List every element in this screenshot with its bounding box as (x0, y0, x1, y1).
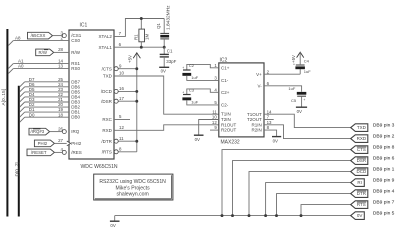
bus D[0..7] (18, 86, 20, 217)
wire T1OUT to TXD tag (264, 114, 351, 127)
wire T2IN to ground (199, 120, 219, 136)
svg-text:+5V: +5V (128, 55, 133, 63)
pin 26 bubble IRQ (62, 130, 66, 134)
svg-text:0V: 0V (161, 69, 166, 74)
svg-text:XTAL1: XTAL1 (98, 45, 112, 50)
svg-text:11: 11 (119, 136, 124, 141)
svg-text:WDC W65C51N: WDC W65C51N (81, 164, 118, 170)
svg-text:1uF: 1uF (288, 86, 295, 91)
wire D7 (25, 81, 69, 83)
svg-text:R/W: R/W (71, 50, 81, 55)
wire pin4 to C3+ (187, 89, 219, 94)
ground 0V at T2IN (194, 134, 204, 136)
svg-text:RXD: RXD (357, 136, 367, 141)
svg-text:/RES: /RES (71, 150, 82, 155)
svg-text:IRQ: IRQ (71, 129, 80, 134)
pin 16 bubble /DCD (114, 89, 118, 93)
junction bus DCD (248, 214, 251, 217)
svg-text:C1-: C1- (221, 78, 229, 83)
svg-text:DCD: DCD (356, 169, 366, 174)
junction /DTR (135, 140, 138, 143)
resistor R1 body (139, 29, 145, 42)
svg-text:/CTS: /CTS (102, 66, 112, 71)
svg-text:shalewyn.com: shalewyn.com (116, 192, 148, 198)
svg-text:1uF: 1uF (304, 69, 311, 74)
tag 0V to DB9 pin 5 (351, 212, 365, 220)
capacitor C1 (160, 53, 169, 55)
svg-text:26: 26 (58, 126, 63, 131)
wire C1 top lead (163, 47, 165, 54)
svg-text:V+: V+ (256, 72, 262, 77)
svg-text:T2IN: T2IN (221, 117, 231, 122)
wire ground bus to CTS tag (222, 150, 351, 216)
wire /IRQ to pin 26 (50, 131, 63, 133)
tag /65CXX chip select (28, 32, 53, 39)
pin 17 bubble /DSR (114, 99, 118, 103)
svg-text:13: 13 (58, 63, 63, 68)
junction /DSR +5V (135, 100, 138, 103)
svg-text:RS232C using WDC 65C51N: RS232C using WDC 65C51N (99, 179, 166, 185)
svg-text:16: 16 (119, 86, 124, 91)
junction bus RI (264, 214, 267, 217)
bus A[0..15] (6, 29, 8, 217)
stub R2OUT pin 9 (210, 129, 219, 131)
wire R1IN to RXD tag (264, 125, 351, 139)
svg-text:DB9 pin 1: DB9 pin 1 (373, 167, 395, 173)
wire C2- to pin 3 (187, 76, 219, 81)
svg-text:D[0..7]: D[0..7] (14, 162, 20, 176)
svg-text:A[0..15]: A[0..15] (1, 89, 7, 106)
wire pin1 to C2+ (187, 64, 219, 69)
pin 27 clock wedge (67, 141, 71, 146)
svg-text:DB0: DB0 (71, 115, 80, 120)
svg-text:V-: V- (258, 83, 263, 88)
svg-text:0V: 0V (195, 137, 200, 142)
wire R1 bottom (140, 42, 142, 47)
tag RXD to DB9 pin 2 (351, 135, 368, 143)
svg-text:12: 12 (119, 125, 124, 130)
svg-text:DB9 pin 7: DB9 pin 7 (373, 200, 395, 206)
svg-text:17: 17 (119, 96, 124, 101)
junction bus CTS (221, 214, 224, 217)
svg-text:RXC: RXC (102, 117, 112, 122)
svg-text:TXD: TXD (103, 74, 113, 79)
svg-text:/DSR: /DSR (101, 99, 113, 104)
svg-text:R2OUT: R2OUT (221, 128, 237, 133)
svg-text:/DTR: /DTR (101, 139, 112, 144)
wire /DTR to +5V rail (118, 140, 137, 142)
svg-text:A0: A0 (18, 63, 24, 68)
wire D3 (25, 101, 69, 103)
tag TXD to DB9 pin 3 (351, 124, 368, 132)
svg-text:TXD: TXD (357, 125, 367, 130)
svg-text:12: 12 (212, 120, 217, 125)
wire D6 (25, 86, 69, 88)
wire /DSR to +5V (118, 100, 137, 102)
wire D4 (25, 96, 69, 98)
wire /CTS to +5V (118, 68, 137, 70)
pin 4 bubble /RES (62, 150, 66, 154)
tag DTR to DB9 pin 4 (351, 190, 368, 198)
svg-text:1uF: 1uF (191, 75, 198, 80)
wire D5 (25, 91, 69, 93)
wire crystal bottom lead (163, 39, 165, 47)
svg-text:D0: D0 (29, 112, 35, 117)
svg-text:C4: C4 (304, 59, 310, 64)
svg-text:10: 10 (212, 115, 217, 120)
junction bus DSR (231, 214, 234, 217)
svg-text:27: 27 (58, 138, 63, 143)
tag R/W (36, 49, 54, 56)
tag RTS to DB9 pin 7 (351, 201, 368, 209)
wire C1 to ground (163, 57, 165, 67)
svg-text:33pF: 33pF (166, 59, 176, 64)
wire RXD to R1OUT (114, 125, 219, 131)
svg-text:R1: R1 (134, 34, 139, 40)
+5V supply arrow at C4 (297, 52, 304, 57)
svg-text:0V: 0V (297, 109, 302, 114)
junction /DCD +5V (135, 90, 138, 93)
wire ground bus to RI tag (266, 183, 351, 216)
svg-text:R2IN: R2IN (252, 128, 262, 133)
wire A8 to CS0 pin 2 (13, 40, 69, 42)
pin 3 bubble /CS1 (62, 34, 66, 38)
wire ground bus to RTS tag (301, 205, 351, 216)
svg-text:+: + (182, 90, 184, 94)
svg-text:C2-: C2- (221, 102, 229, 107)
svg-text:0V: 0V (110, 223, 115, 228)
wire /RESET to pin 4 (54, 151, 62, 153)
svg-text:+: + (303, 98, 305, 102)
tag DCD to DB9 pin 1 (351, 168, 368, 176)
wire TXD to T1IN (114, 76, 219, 114)
svg-text:PHI2: PHI2 (38, 141, 48, 146)
svg-text:DB9 pin 8: DB9 pin 8 (373, 145, 395, 151)
svg-text:10: 10 (119, 71, 124, 76)
tag CTS to DB9 pin 8 (351, 146, 368, 154)
svg-text:Q1: Q1 (156, 23, 161, 29)
svg-text:PHI2: PHI2 (71, 141, 82, 146)
wire A0 to RS0 (13, 68, 69, 70)
junction bus DTR (275, 214, 278, 217)
tag /RESET (27, 149, 54, 156)
svg-text:DTR: DTR (357, 191, 367, 196)
wire /65CXX to pin 3 (53, 35, 63, 37)
junction R1 bottom (140, 46, 143, 49)
pin 11 bubble /DTR (114, 139, 118, 143)
bus entry D5 (20, 92, 25, 97)
svg-text:/DCD: /DCD (101, 89, 113, 94)
svg-text:/RESET: /RESET (31, 150, 47, 155)
ground 0V at R2IN (272, 136, 281, 138)
capacitor C2 (183, 69, 191, 71)
wire R/W to pin 28 (54, 51, 69, 53)
svg-text:T2OUT: T2OUT (247, 117, 262, 122)
capacitor C5 (297, 92, 307, 95)
svg-text:13: 13 (267, 120, 272, 125)
svg-text:C2: C2 (189, 63, 195, 68)
wire D0 (25, 116, 69, 118)
svg-text:0V: 0V (273, 138, 278, 143)
junction crystal/C1 (163, 46, 166, 49)
svg-text:CS0: CS0 (71, 38, 80, 43)
svg-text:/65CXX: /65CXX (31, 33, 46, 38)
svg-text:DB9 pin 9: DB9 pin 9 (373, 178, 395, 184)
svg-text:T1OUT: T1OUT (247, 112, 262, 117)
svg-text:11: 11 (212, 109, 217, 114)
wire R2IN to ground (264, 130, 277, 137)
svg-text:DB9 pin 3: DB9 pin 3 (373, 123, 395, 129)
wire /RTS joins /DTR rail (118, 151, 137, 153)
overline on W of R/W (44, 49, 48, 51)
bus entry D7 (20, 82, 25, 87)
wire R1 top (140, 19, 142, 30)
svg-text:1uF: 1uF (191, 100, 198, 105)
wire V+ to C4 (264, 73, 300, 75)
crystal Q1 (160, 32, 169, 34)
ground 0V under C1 (159, 66, 169, 68)
bus entry A0 (8, 69, 13, 74)
bus entry D0 (20, 117, 25, 122)
wire C3- to pin 5 (187, 100, 219, 105)
svg-text:+: + (182, 66, 184, 70)
svg-text:28: 28 (58, 47, 63, 52)
ground 0V bottom left (114, 216, 116, 222)
stub T2OUT pin 7 (264, 119, 274, 121)
svg-text:IC2: IC2 (220, 58, 228, 64)
ground 0V under C5 (296, 106, 307, 108)
wire ground bus to DTR tag (277, 194, 351, 216)
capacitor C3 (183, 94, 191, 96)
svg-text:+: + (293, 62, 295, 66)
bus entry D4 (20, 97, 25, 102)
op IC1 WDC W65C51N body (69, 30, 114, 159)
svg-text:RTS: RTS (357, 202, 366, 207)
wire ground bus (115, 215, 351, 217)
svg-text:1.8432MHz: 1.8432MHz (166, 5, 172, 30)
svg-text:/IRQ#3: /IRQ#3 (30, 129, 44, 134)
bus entry A8 (8, 41, 13, 46)
svg-text:C1: C1 (167, 49, 173, 54)
stub RXC pin 5 (114, 119, 130, 121)
bus entry D1 (20, 112, 25, 117)
pin 9 bubble /CTS (114, 67, 118, 71)
svg-text:C5: C5 (291, 98, 297, 103)
wire ground bus to DSR tag (233, 161, 351, 216)
junction bus RTS (300, 214, 303, 217)
svg-text:RXD: RXD (102, 128, 112, 133)
pin 8 bubble /RTS (114, 150, 118, 154)
svg-text:C3: C3 (189, 88, 195, 93)
overline on IRQ of /IRQ#3 (33, 128, 41, 130)
wire A1 to RS1 (13, 63, 69, 65)
svg-text:DB9 pin 5: DB9 pin 5 (373, 211, 395, 217)
wire crystal top lead (163, 19, 165, 34)
svg-text:0V: 0V (357, 213, 363, 218)
bus entry D2 (20, 107, 25, 112)
svg-text:RS0: RS0 (71, 66, 80, 71)
wire D1 (25, 111, 69, 113)
wire D2 (25, 106, 69, 108)
svg-text:18: 18 (58, 112, 63, 117)
bus entry D6 (20, 87, 25, 92)
svg-text:IC1: IC1 (80, 22, 88, 28)
bus entry A1 (8, 64, 13, 69)
svg-text:DB9 pin 6: DB9 pin 6 (373, 156, 395, 162)
svg-text:DB9 pin 4: DB9 pin 4 (373, 189, 395, 195)
svg-text:/RTS: /RTS (102, 149, 112, 154)
svg-text:CTS: CTS (357, 147, 366, 152)
wire /DCD to +5V (118, 90, 137, 92)
svg-text:DSR: DSR (357, 158, 367, 163)
svg-text:14: 14 (267, 109, 272, 114)
tag PHI2 (34, 140, 54, 147)
wire PHI2 to pin 27 (54, 142, 66, 144)
junction /CTS +5V (135, 67, 138, 70)
title box (94, 174, 173, 200)
svg-text:C2+: C2+ (221, 90, 230, 95)
tag RI to DB9 pin 9 (351, 179, 365, 187)
svg-text:C1+: C1+ (221, 65, 230, 70)
wire XTAL1 pin6 (114, 46, 164, 48)
svg-text:DB9 pin 2: DB9 pin 2 (373, 134, 395, 140)
tag /IRQ#3 (29, 128, 50, 135)
svg-text:R1OUT: R1OUT (221, 122, 237, 127)
svg-text:RI: RI (357, 180, 362, 185)
svg-text:1M: 1M (144, 34, 149, 40)
junction R1 top (140, 17, 143, 20)
wire ground bus to DCD tag (249, 172, 351, 216)
op IC2 MAX232 body (219, 63, 264, 137)
svg-text:A8: A8 (15, 35, 21, 40)
wire V- to C5 (264, 86, 302, 92)
svg-text:R1IN: R1IN (252, 122, 262, 127)
tag DSR to DB9 pin 6 (351, 157, 368, 165)
capacitor C4 (299, 69, 301, 74)
wire XTAL2 pin7 to crystal top (114, 19, 164, 37)
svg-text:R/W: R/W (39, 50, 48, 55)
svg-text:Mike's Projects: Mike's Projects (116, 185, 151, 191)
svg-text:MAX232: MAX232 (221, 140, 240, 146)
bus entry D3 (20, 102, 25, 107)
svg-text:XTAL2: XTAL2 (98, 34, 112, 39)
svg-text:T1IN: T1IN (221, 112, 231, 117)
+5V supply arrow (136, 53, 138, 152)
